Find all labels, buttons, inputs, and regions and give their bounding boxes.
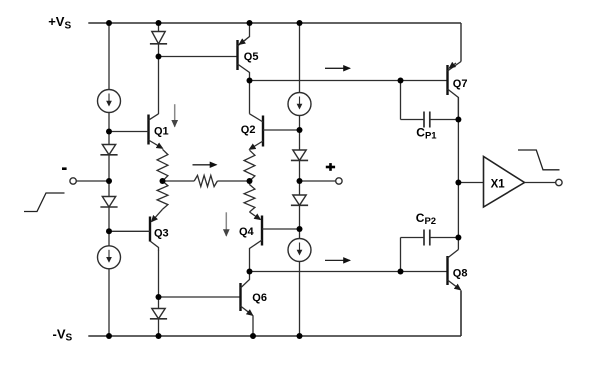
svg-text:Q4: Q4 (239, 226, 255, 238)
svg-text:X1: X1 (491, 179, 506, 191)
svg-text:Q1: Q1 (154, 126, 169, 138)
svg-text:CP2: CP2 (416, 211, 436, 227)
svg-text:-VS: -VS (53, 326, 73, 343)
svg-text:+VS: +VS (48, 14, 71, 31)
svg-text:CP1: CP1 (416, 125, 437, 141)
svg-text:Q8: Q8 (453, 268, 468, 280)
svg-text:Q3: Q3 (154, 228, 169, 240)
svg-text:Q2: Q2 (241, 124, 256, 136)
svg-text:Q6: Q6 (252, 292, 267, 304)
svg-text:Q5: Q5 (244, 51, 259, 63)
svg-text:Q7: Q7 (453, 78, 468, 90)
